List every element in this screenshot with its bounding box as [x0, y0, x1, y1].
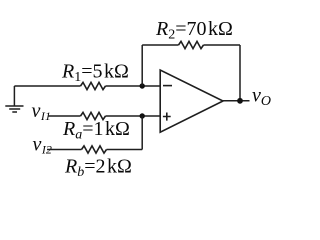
wire vertical Rb up to junction — [141, 116, 143, 150]
node: junction R1/feedback — [140, 83, 145, 88]
wire feedback left vertical — [141, 45, 143, 86]
wire feedback right vertical — [239, 45, 241, 101]
wire Rb to junction — [107, 149, 143, 151]
svg-text:vI2: vI2 — [33, 134, 52, 157]
wire vI2 to Rb — [47, 149, 82, 151]
wire feedback top left — [142, 44, 178, 46]
ground — [5, 106, 23, 112]
resistor R1 — [81, 82, 106, 89]
wire vI1 to Ra — [48, 115, 81, 117]
svg-text:R2=70kΩ: R2=70kΩ — [155, 18, 233, 43]
svg-text:vO: vO — [252, 85, 271, 110]
node: junction Ra/Rb — [140, 113, 145, 118]
op-amp U1 — [160, 70, 223, 132]
wire to ground — [13, 86, 15, 106]
wire R1 to inverting input — [106, 85, 161, 87]
wire output — [223, 100, 250, 102]
svg-text:R1=5kΩ: R1=5kΩ — [61, 61, 129, 86]
resistor R2 — [179, 41, 204, 48]
svg-text:vI1: vI1 — [32, 100, 51, 123]
wire feedback top right — [204, 44, 241, 46]
svg-text:Ra=1kΩ: Ra=1kΩ — [62, 118, 130, 143]
op-amp minus sign — [163, 85, 172, 87]
wire Ra to non-inverting input — [106, 115, 161, 117]
svg-text:Rb=2kΩ: Rb=2kΩ — [64, 156, 132, 181]
wire ground to R1 — [14, 85, 80, 87]
resistor Ra — [81, 112, 106, 119]
op-amp plus sign — [163, 113, 171, 121]
resistor Rb — [82, 146, 107, 153]
node output — [237, 98, 243, 104]
